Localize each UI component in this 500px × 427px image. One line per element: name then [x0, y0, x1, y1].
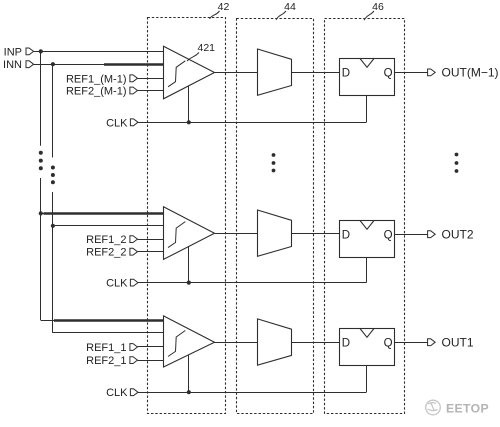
wire INN bus vertical upper: [52, 64, 54, 157]
wire INN bus vertical lower: [52, 192, 54, 333]
wire REF1 row1: [138, 78, 164, 80]
svg-text:REF2_1: REF2_1: [86, 355, 126, 367]
ellipsis dots output column: [455, 153, 459, 157]
output terminal row1: [428, 69, 436, 76]
input terminal INN: [26, 61, 34, 68]
wire INP thick segment row3: [54, 319, 163, 322]
wire buffer to flip-flop row2: [291, 233, 339, 235]
wire REF2 row2: [138, 251, 164, 253]
svg-text:OUT1: OUT1: [442, 336, 474, 350]
svg-text:OUT(M−1): OUT(M−1): [442, 66, 499, 80]
input terminal REF1 row2: [130, 236, 138, 243]
junction CLK row3: [187, 390, 191, 394]
wire REF2 row1: [138, 90, 164, 92]
wire CLK to flip-flop row1: [366, 96, 368, 123]
wire INN to comparator row2: [53, 225, 163, 227]
wire INP thick segment row2: [44, 212, 164, 215]
input terminal CLK row3: [130, 389, 138, 396]
wire INP to comparator row1: [34, 51, 164, 53]
wire REF1 row3: [138, 346, 164, 348]
input terminal CLK row2: [130, 279, 138, 286]
wire INN to comparator row3: [53, 332, 163, 334]
svg-text:Q: Q: [384, 229, 393, 241]
wire flip-flop Q output row3: [395, 342, 428, 344]
flip-flop FF1 clock edge triangle: [360, 59, 374, 68]
flip-flop FF3 box: [340, 329, 395, 366]
wire comparator output row3: [214, 342, 258, 344]
dashed block 46 (latch stage): [325, 19, 405, 414]
output terminal row3: [428, 339, 436, 346]
comparator U1 triangle: [164, 46, 215, 99]
input terminal REF2 row3: [130, 357, 138, 364]
junction CLK row2: [187, 281, 191, 285]
dashed block 44 (buffer stage): [237, 19, 314, 414]
wire INP bus vertical lower: [40, 178, 42, 320]
input terminal REF2 row1: [130, 87, 138, 94]
comparator U3 triangle: [164, 316, 215, 367]
svg-text:Q: Q: [384, 68, 393, 80]
wire REF2 row3: [138, 360, 164, 362]
wire comparator output row2: [215, 233, 258, 235]
wire CLK horizontal row2: [138, 282, 366, 284]
input terminal REF1 row1: [130, 75, 138, 82]
svg-text:REF1_2: REF1_2: [86, 234, 126, 246]
flip-flop FF2 clock edge triangle: [360, 221, 374, 230]
wire INN thick segment row1: [104, 63, 163, 66]
junction CLK row1: [187, 120, 191, 124]
junction INN bus: [51, 62, 55, 66]
wire CLK horizontal row1: [138, 122, 366, 124]
wire INP bus vertical upper: [40, 51, 42, 145]
svg-text:INP: INP: [4, 46, 22, 58]
wire CLK to flip-flop row2: [366, 257, 368, 282]
wire REF1 row2: [138, 239, 164, 241]
input terminal REF2 row2: [130, 248, 138, 255]
wire INP to comparator row3: [41, 320, 164, 322]
wire buffer to flip-flop row1: [291, 72, 339, 74]
comparator U2 hysteresis symbol: [168, 222, 185, 248]
wire comparator clock tap row1: [188, 86, 190, 123]
wire flip-flop Q output row1: [395, 72, 428, 74]
flip-flop FF1 box: [340, 59, 395, 96]
wire flip-flop Q output row2: [395, 234, 428, 236]
ellipsis dots INN bus: [51, 166, 55, 170]
svg-text:REF2_2: REF2_2: [86, 247, 126, 259]
wire buffer to flip-flop row3: [291, 342, 339, 344]
svg-text:D: D: [342, 337, 350, 349]
junction INN row2: [51, 224, 55, 228]
svg-text:REF1_1: REF1_1: [86, 342, 126, 354]
wire comparator clock tap row3: [188, 355, 190, 393]
svg-text:REF2_(M-1): REF2_(M-1): [66, 86, 127, 98]
input terminal INP: [26, 48, 34, 55]
input terminal REF1 row3: [130, 344, 138, 351]
comparator U3 hysteresis symbol: [168, 331, 185, 357]
svg-text:D: D: [342, 229, 350, 241]
ellipsis dots INP bus: [39, 151, 43, 155]
svg-text:INN: INN: [3, 59, 22, 71]
EETOP watermark logo: [426, 400, 441, 415]
junction INP row2: [39, 211, 43, 215]
svg-text:OUT2: OUT2: [442, 228, 474, 242]
svg-text:CLK: CLK: [106, 117, 128, 129]
buffer A2 trapezoid: [258, 210, 292, 256]
wire CLK to flip-flop row3: [366, 365, 368, 392]
svg-text:EETOP: EETOP: [446, 401, 489, 415]
comparator U2 triangle: [164, 207, 215, 260]
wire comparator clock tap row2: [188, 247, 190, 283]
dashed block 42 (comparator stage): [148, 18, 226, 414]
flip-flop FF2 box: [340, 221, 395, 258]
comparator U1 hysteresis symbol: [168, 61, 185, 87]
ellipsis dots middle column: [272, 153, 276, 157]
wire INP to comparator row2: [41, 213, 164, 215]
svg-text:421: 421: [198, 42, 216, 54]
svg-text:Q: Q: [384, 337, 393, 349]
svg-text:CLK: CLK: [106, 387, 128, 399]
junction INP bus: [39, 49, 43, 53]
svg-text:REF1_(M-1): REF1_(M-1): [66, 73, 127, 85]
wire comparator output row1: [215, 72, 258, 74]
wire CLK horizontal row3: [138, 392, 366, 394]
svg-text:CLK: CLK: [106, 278, 128, 290]
buffer A3 trapezoid: [258, 319, 292, 365]
wire INN to comparator row1: [34, 64, 164, 66]
flip-flop FF3 clock edge triangle: [360, 329, 374, 338]
svg-text:D: D: [342, 68, 350, 80]
input terminal CLK row1: [130, 119, 138, 126]
output terminal row2: [428, 231, 436, 238]
buffer A1 trapezoid: [258, 49, 292, 95]
